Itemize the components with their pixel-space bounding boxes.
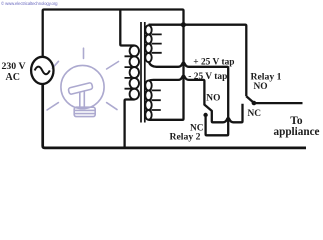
- svg-text:NO: NO: [206, 93, 220, 103]
- bulb base: [74, 107, 95, 116]
- transformer primary lead bottom: [125, 100, 135, 147]
- transformer primary winding: [125, 46, 140, 100]
- wire: AC bottom to bottom rail: [43, 83, 306, 147]
- wire: relay 1 output to appliance: [254, 102, 303, 104]
- relay 1 armature: [246, 96, 254, 103]
- svg-text:AC: AC: [6, 72, 20, 83]
- transformer core: [141, 22, 145, 123]
- svg-text:- 25 V tap: - 25 V tap: [188, 72, 227, 82]
- svg-text:NO: NO: [254, 82, 268, 92]
- light bulb sketch: [47, 48, 119, 116]
- wire: -25V tap, hop, relay 2 armature, hop, to relay 1 NC stub: [149, 76, 243, 123]
- svg-text:Relay 1: Relay 1: [251, 71, 282, 82]
- node: junction dot top: [181, 22, 186, 27]
- wire: AC top to top rail to center vertical, down to secondary bottom lead: [43, 10, 184, 120]
- svg-text:NC: NC: [248, 109, 262, 119]
- AC source: [31, 57, 53, 84]
- node: relay 2 NC contact: [203, 113, 207, 117]
- bulb rays: [83, 48, 85, 58]
- circuit wires: [31, 10, 306, 148]
- svg-text:230 V: 230 V: [2, 61, 26, 72]
- wire: secondary top to relay 1 pole: [149, 25, 247, 97]
- bulb stem: [80, 92, 85, 108]
- bulb glass: [61, 65, 104, 108]
- transformer secondary top winding: [145, 25, 161, 62]
- transformer primary lead top: [120, 10, 134, 46]
- svg-text:+ 25 V tap: + 25 V tap: [193, 57, 234, 67]
- bulb filament plate: [68, 82, 93, 94]
- node: relay 1 pivot: [252, 101, 257, 106]
- transformer secondary bottom winding: [145, 81, 161, 120]
- svg-text:© www.electricaltechnology.org: © www.electricaltechnology.org: [1, 1, 58, 6]
- wire: +25V tap from winding, hop over center vertical, down right side: [149, 62, 228, 135]
- svg-text:appliance: appliance: [274, 126, 320, 138]
- svg-text:Relay 2: Relay 2: [170, 131, 201, 142]
